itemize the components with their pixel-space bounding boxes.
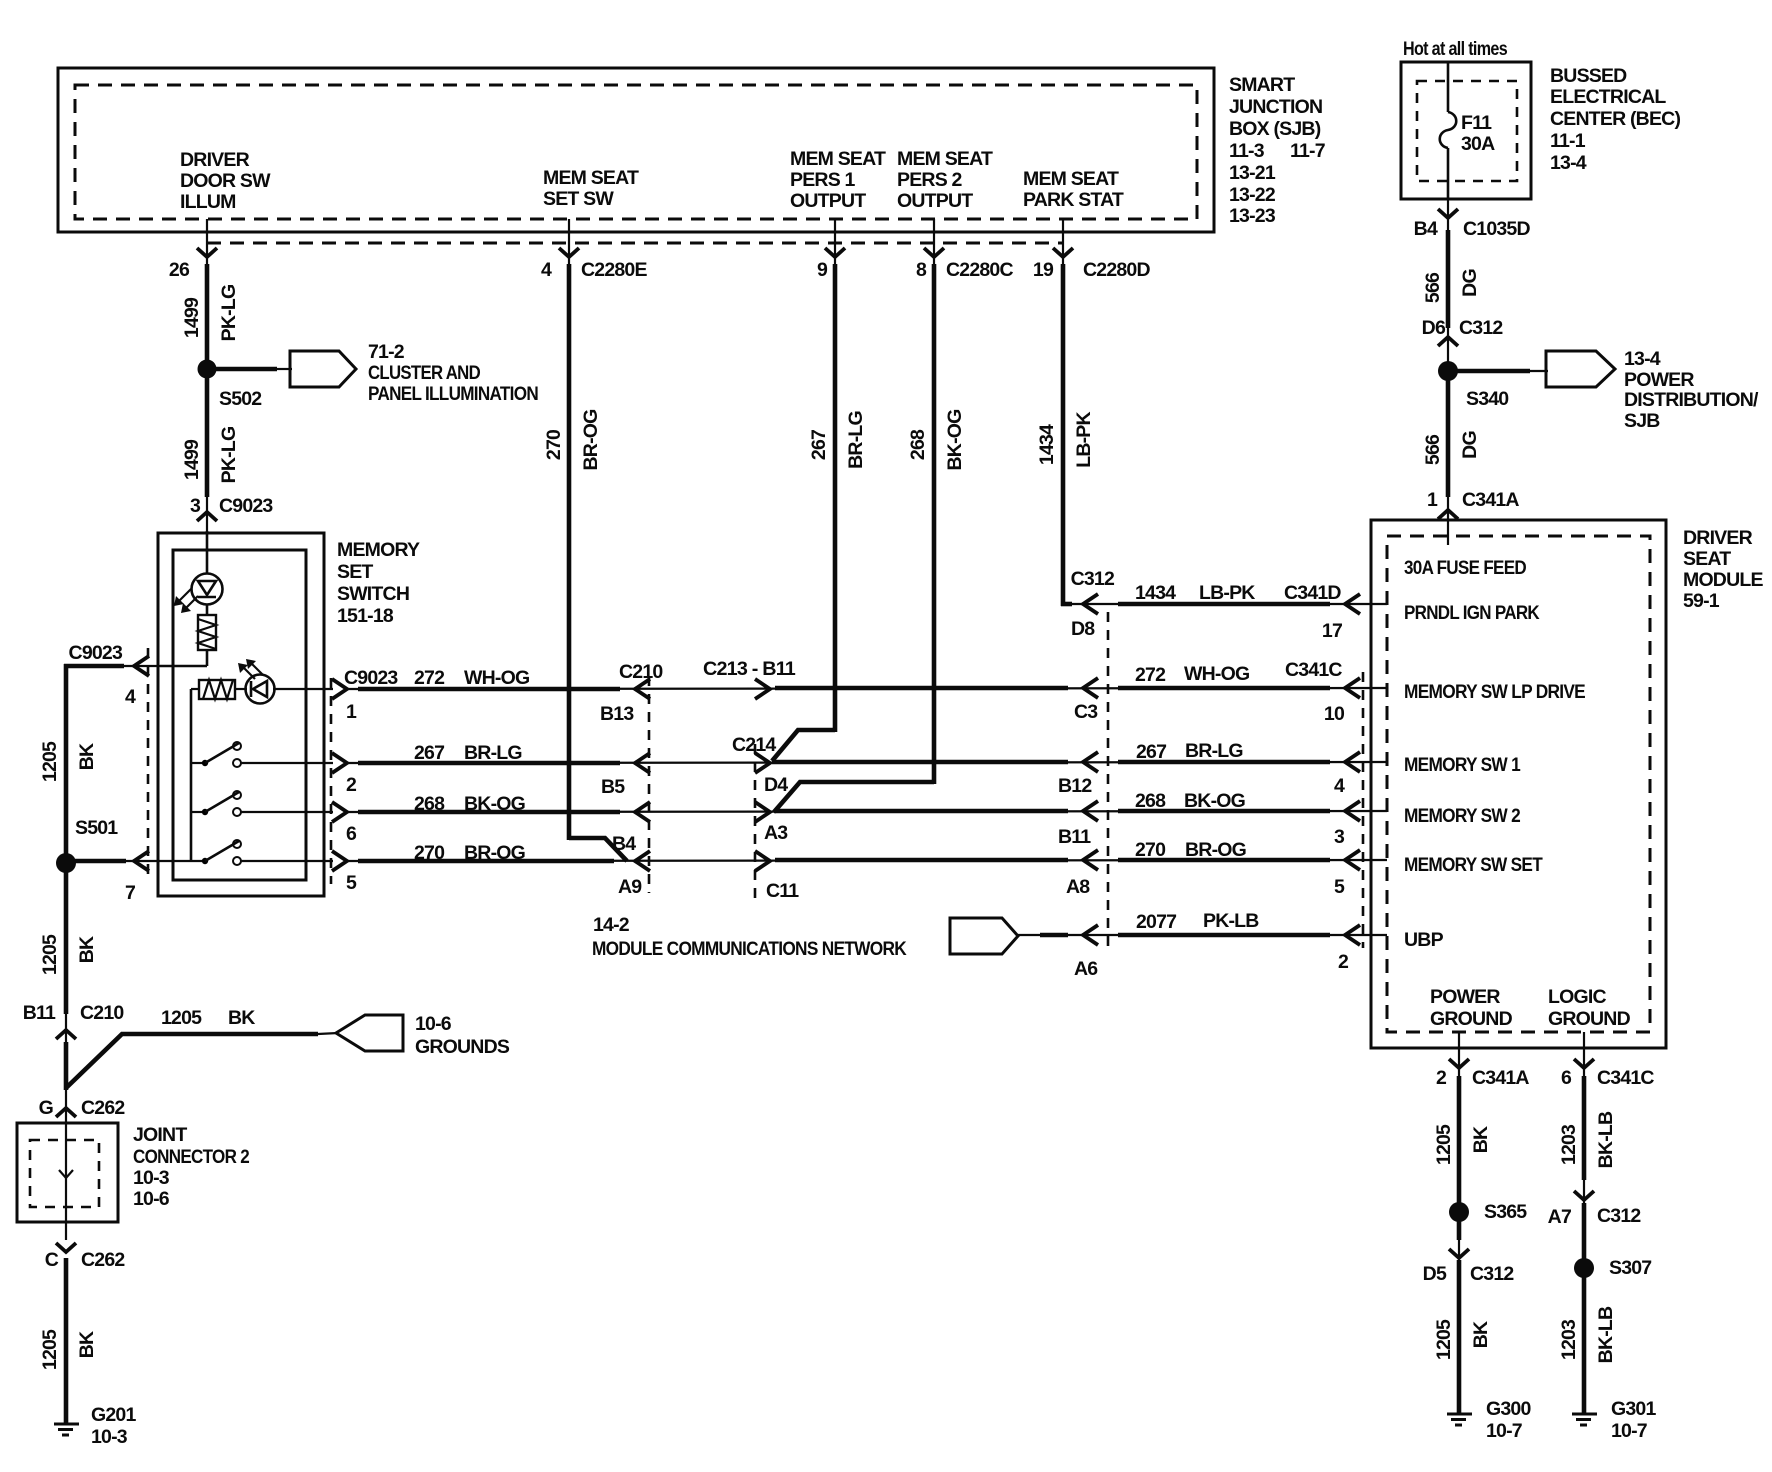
splice S307: [1574, 1257, 1651, 1279]
ground G300: [1447, 1398, 1531, 1442]
svg-text:SET SW: SET SW: [543, 188, 614, 210]
svg-text:1205: 1205: [39, 934, 61, 975]
off-page arrow 13-4 power distribution SJB: [1546, 348, 1759, 432]
svg-text:3: 3: [190, 495, 201, 517]
wire branch to power distribution: [1457, 369, 1548, 374]
C9023 left connector dashed line: [147, 648, 150, 880]
svg-text:S307: S307: [1609, 1257, 1651, 1279]
svg-text:13-23: 13-23: [1229, 205, 1276, 227]
LED 1 illumination: [174, 531, 223, 613]
svg-text:268: 268: [907, 429, 929, 460]
svg-text:1: 1: [1427, 489, 1438, 511]
svg-text:MEMORY SW LP DRIVE: MEMORY SW LP DRIVE: [1404, 681, 1586, 703]
svg-text:Hot at all times: Hot at all times: [1403, 38, 1508, 60]
C9023 right connector dashed line: [330, 678, 333, 884]
svg-text:4: 4: [125, 686, 136, 708]
svg-text:C341A: C341A: [1462, 489, 1519, 511]
wire row 1434 LB-PK (prndl ign park): [1063, 568, 1387, 604]
svg-text:2: 2: [1436, 1067, 1447, 1089]
switch SW2: [191, 791, 333, 816]
svg-text:UBP: UBP: [1404, 929, 1444, 951]
svg-text:BR-LG: BR-LG: [1185, 740, 1243, 762]
svg-text:272: 272: [1135, 664, 1166, 686]
svg-text:2: 2: [346, 774, 357, 796]
svg-text:POWER: POWER: [1624, 369, 1694, 391]
svg-text:1205: 1205: [1433, 1124, 1455, 1165]
memory set switch inner box: [173, 550, 306, 880]
svg-text:268: 268: [1135, 790, 1166, 812]
wire row 272 WH-OG (memory sw lp drive): [344, 659, 1387, 689]
svg-text:A6: A6: [1074, 958, 1098, 980]
svg-text:G201: G201: [91, 1404, 136, 1426]
SJB title label: [1229, 74, 1325, 227]
svg-text:30A: 30A: [1461, 133, 1495, 155]
svg-text:PK-LB: PK-LB: [1203, 910, 1259, 932]
svg-text:1: 1: [346, 701, 357, 723]
svg-text:5: 5: [346, 872, 357, 894]
svg-text:59-1: 59-1: [1683, 590, 1720, 612]
svg-text:G301: G301: [1611, 1398, 1656, 1420]
svg-text:D4: D4: [764, 774, 788, 796]
svg-text:DISTRIBUTION/: DISTRIBUTION/: [1624, 389, 1759, 411]
svg-text:30A FUSE FEED: 30A FUSE FEED: [1404, 557, 1527, 579]
svg-text:SJB: SJB: [1624, 410, 1660, 432]
svg-text:LB-PK: LB-PK: [1073, 411, 1095, 467]
driver seat module outer box: [1371, 520, 1666, 1048]
svg-text:SEAT: SEAT: [1683, 548, 1731, 570]
svg-text:BK: BK: [228, 1007, 255, 1029]
svg-text:5: 5: [1334, 876, 1345, 898]
svg-text:PANEL ILLUMINATION: PANEL ILLUMINATION: [368, 383, 538, 405]
svg-text:BUSSED: BUSSED: [1550, 65, 1627, 87]
svg-text:BR-OG: BR-OG: [1185, 839, 1246, 861]
svg-text:C210: C210: [80, 1002, 124, 1024]
wire S501 to memory switch pin 7: [75, 851, 206, 904]
svg-text:G: G: [39, 1097, 53, 1119]
svg-text:B11: B11: [23, 1002, 56, 1024]
smart junction box SJB inner dashed box: [75, 85, 1197, 219]
svg-text:BK: BK: [1470, 1126, 1492, 1153]
svg-text:B11: B11: [1058, 826, 1091, 848]
svg-text:D5: D5: [1423, 1263, 1447, 1285]
svg-text:F11: F11: [1461, 112, 1492, 134]
svg-text:BK: BK: [76, 936, 98, 963]
connector C213/C214 dashed line: [754, 744, 757, 898]
svg-text:566: 566: [1422, 434, 1444, 465]
wire 267 BR-LG from SJB mem seat pers 1 output: [772, 219, 867, 761]
svg-text:BK-LB: BK-LB: [1595, 1111, 1617, 1168]
svg-text:GROUND: GROUND: [1430, 1008, 1513, 1030]
wire 1434 LB-PK from SJB mem seat park stat: [1033, 219, 1151, 606]
svg-text:BR-OG: BR-OG: [580, 410, 602, 471]
svg-text:WH-OG: WH-OG: [1184, 663, 1249, 685]
off-page arrow 10-6 grounds: [336, 1013, 510, 1058]
svg-text:C341C: C341C: [1285, 659, 1342, 681]
svg-text:151-18: 151-18: [337, 605, 394, 627]
svg-text:C312: C312: [1071, 568, 1115, 590]
svg-text:268: 268: [414, 793, 445, 815]
svg-text:C9023: C9023: [344, 667, 398, 689]
svg-text:CLUSTER AND: CLUSTER AND: [368, 362, 481, 384]
wire 1499 PK-LG lower segment to C9023: [181, 378, 273, 533]
C341 module edge arrows and pin numbers: [1322, 594, 1360, 973]
svg-text:9: 9: [817, 259, 828, 281]
LED 2 memory indicator: [235, 659, 333, 704]
smart junction box SJB outer box: [58, 68, 1214, 232]
svg-text:C262: C262: [81, 1249, 125, 1271]
svg-text:WH-OG: WH-OG: [464, 667, 529, 689]
svg-text:270: 270: [414, 842, 445, 864]
svg-text:PK-LG: PK-LG: [218, 285, 240, 342]
svg-text:10-6: 10-6: [133, 1188, 170, 1210]
svg-text:1434: 1434: [1036, 424, 1058, 465]
svg-text:1205: 1205: [39, 741, 61, 782]
svg-text:S340: S340: [1466, 388, 1509, 410]
svg-text:S365: S365: [1484, 1201, 1527, 1223]
wire 1205 BK to grounds off-page: [66, 1007, 338, 1090]
wire through joint connector: [45, 1120, 126, 1271]
driver seat module pin labels: [1404, 557, 1631, 1030]
wire row 270 BR-OG (memory sw set): [347, 839, 1387, 864]
svg-text:1434: 1434: [1135, 582, 1176, 604]
svg-text:MEMORY SW 1: MEMORY SW 1: [1404, 754, 1521, 776]
svg-text:MODULE: MODULE: [1683, 569, 1763, 591]
wire 1499 PK-LG upper segment from SJB pin 26: [169, 219, 240, 360]
svg-text:B4: B4: [612, 833, 636, 855]
svg-text:10-7: 10-7: [1611, 1420, 1647, 1442]
svg-text:JUNCTION: JUNCTION: [1229, 96, 1322, 118]
svg-text:D6: D6: [1422, 317, 1446, 339]
svg-text:SET: SET: [337, 561, 373, 583]
svg-text:14-2: 14-2: [593, 914, 630, 936]
svg-text:G300: G300: [1486, 1398, 1531, 1420]
svg-text:C262: C262: [81, 1097, 125, 1119]
wire 1205 BK S501 down to C210: [23, 872, 125, 1044]
svg-text:267: 267: [1136, 741, 1166, 763]
svg-text:MEM SEAT: MEM SEAT: [1023, 168, 1119, 190]
wire 566 DG fuse to C312: [1414, 199, 1531, 362]
svg-text:SWITCH: SWITCH: [337, 583, 409, 605]
svg-text:C210: C210: [619, 661, 663, 683]
svg-text:PERS 2: PERS 2: [897, 169, 963, 191]
svg-text:SMART: SMART: [1229, 74, 1295, 96]
svg-text:11-1: 11-1: [1550, 130, 1586, 152]
C213 C214 arrows and pins: [703, 658, 799, 902]
svg-text:C341D: C341D: [1284, 582, 1341, 604]
switch SW3: [202, 840, 333, 865]
svg-text:C312: C312: [1597, 1205, 1641, 1227]
wire 1203 BK-LB logic ground: [1548, 1032, 1655, 1260]
C312 arrows and pins: [1058, 594, 1098, 980]
svg-text:MEM SEAT: MEM SEAT: [543, 167, 639, 189]
svg-text:MEM SEAT: MEM SEAT: [790, 148, 886, 170]
wire row 267 BR-LG (memory sw 1): [347, 740, 1387, 764]
svg-text:LOGIC: LOGIC: [1548, 986, 1606, 1008]
ground G201: [54, 1404, 136, 1448]
svg-text:C2280C: C2280C: [946, 259, 1013, 281]
wire 1205 BK power ground: [1433, 1032, 1529, 1204]
splice S501: [56, 817, 118, 873]
svg-text:BK-LB: BK-LB: [1595, 1306, 1617, 1363]
wire from R1 to C9023 pin 4: [64, 642, 207, 708]
svg-text:C213 - B11: C213 - B11: [703, 658, 796, 680]
svg-text:MEMORY SW SET: MEMORY SW SET: [1404, 854, 1543, 876]
memory set switch title: [337, 539, 420, 627]
svg-text:566: 566: [1422, 272, 1444, 303]
memory set switch outer box: [158, 533, 324, 896]
svg-text:BK-OG: BK-OG: [944, 410, 966, 471]
wire to joint connector C262: [39, 1090, 126, 1120]
svg-text:DG: DG: [1459, 269, 1481, 297]
svg-text:1203: 1203: [1558, 1124, 1580, 1165]
svg-text:13-4: 13-4: [1624, 348, 1661, 370]
svg-text:10: 10: [1324, 703, 1345, 725]
svg-text:11-3: 11-3: [1229, 140, 1265, 162]
svg-text:C2280E: C2280E: [581, 259, 647, 281]
svg-text:C214: C214: [732, 734, 776, 756]
svg-text:1499: 1499: [181, 297, 203, 338]
BEC title: [1550, 65, 1680, 174]
internal common bus: [190, 689, 193, 861]
wire 1205 BK to G201: [39, 1258, 98, 1424]
svg-text:C9023: C9023: [219, 495, 273, 517]
svg-text:JOINT: JOINT: [133, 1124, 187, 1146]
svg-text:DG: DG: [1459, 431, 1481, 459]
svg-text:GROUND: GROUND: [1548, 1008, 1631, 1030]
svg-text:B13: B13: [600, 703, 634, 725]
svg-text:PK-LG: PK-LG: [218, 427, 240, 484]
svg-text:BR-LG: BR-LG: [464, 742, 522, 764]
svg-text:4: 4: [1334, 775, 1345, 797]
svg-text:MEMORY SW 2: MEMORY SW 2: [1404, 805, 1521, 827]
joint connector 2 inner dashed box: [30, 1140, 99, 1207]
bussed electrical center outer box: [1401, 62, 1531, 199]
svg-text:BK: BK: [76, 1331, 98, 1358]
C210 arrows and pins: [600, 661, 663, 898]
svg-text:BOX (SJB): BOX (SJB): [1229, 118, 1321, 140]
wire 1205 BK from C9023 down to S501: [39, 664, 98, 855]
svg-text:A7: A7: [1548, 1206, 1571, 1228]
svg-text:B5: B5: [601, 776, 625, 798]
wire 566 DG S340 to driver seat module: [1422, 380, 1519, 545]
svg-text:OUTPUT: OUTPUT: [897, 190, 973, 212]
svg-text:BK: BK: [1470, 1321, 1492, 1348]
svg-text:MEMORY: MEMORY: [337, 539, 420, 561]
svg-text:17: 17: [1322, 620, 1342, 642]
svg-text:C312: C312: [1470, 1263, 1514, 1285]
svg-text:A8: A8: [1066, 876, 1090, 898]
svg-text:DOOR SW: DOOR SW: [180, 170, 271, 192]
svg-text:13-21: 13-21: [1229, 162, 1276, 184]
svg-text:CENTER (BEC): CENTER (BEC): [1550, 108, 1680, 130]
ground G301: [1572, 1398, 1656, 1442]
svg-text:BK-OG: BK-OG: [1184, 790, 1245, 812]
resistor R1 (illumination): [198, 604, 216, 666]
svg-text:8: 8: [916, 259, 927, 281]
svg-text:10-3: 10-3: [91, 1426, 128, 1448]
svg-text:71-2: 71-2: [368, 341, 405, 363]
svg-text:10-6: 10-6: [415, 1013, 452, 1035]
wire 1205 BK to G300: [1423, 1221, 1515, 1414]
svg-text:3: 3: [1334, 826, 1345, 848]
svg-text:C312: C312: [1459, 317, 1503, 339]
svg-text:C: C: [45, 1249, 59, 1271]
driver seat module inner dashed box: [1387, 536, 1650, 1032]
svg-text:C11: C11: [766, 880, 799, 902]
svg-text:BR-LG: BR-LG: [845, 411, 867, 469]
svg-text:1205: 1205: [39, 1329, 61, 1370]
svg-text:C3: C3: [1074, 701, 1098, 723]
off-page arrow 71-2 cluster and panel illumination: [290, 341, 538, 405]
driver seat module title: [1683, 527, 1763, 612]
svg-text:B12: B12: [1058, 775, 1092, 797]
svg-text:BK: BK: [76, 743, 98, 770]
svg-text:13-22: 13-22: [1229, 184, 1276, 206]
connector C341 dashed line at module: [1362, 672, 1365, 948]
wire row 268 BK-OG (memory sw 2): [347, 790, 1387, 815]
SJB internal labels: [180, 148, 1124, 213]
svg-text:B4: B4: [1414, 218, 1438, 240]
wire 268 BK-OG from SJB mem seat pers 2 output: [774, 219, 1013, 812]
svg-text:PERS 1: PERS 1: [790, 169, 856, 191]
svg-text:GROUNDS: GROUNDS: [415, 1036, 510, 1058]
svg-text:C2280D: C2280D: [1083, 259, 1150, 281]
svg-text:270: 270: [543, 429, 565, 460]
wire branch to cluster illumination: [216, 367, 292, 372]
SJB bottom connector dashed line: [207, 242, 1063, 245]
switch SW1: [191, 742, 333, 767]
joint connector 2 outer box: [17, 1123, 118, 1222]
svg-text:C341A: C341A: [1472, 1067, 1529, 1089]
bussed electrical center inner dashed box: [1417, 81, 1517, 181]
svg-text:ELECTRICAL: ELECTRICAL: [1550, 86, 1666, 108]
svg-text:6: 6: [346, 823, 357, 845]
svg-text:13-4: 13-4: [1550, 152, 1587, 174]
joint connector 2 title: [133, 1124, 250, 1210]
svg-text:BR-OG: BR-OG: [464, 842, 525, 864]
splice S502: [198, 360, 263, 411]
svg-text:10-7: 10-7: [1486, 1420, 1522, 1442]
svg-text:2: 2: [1338, 951, 1349, 973]
svg-text:CONNECTOR 2: CONNECTOR 2: [133, 1146, 250, 1168]
svg-text:2077: 2077: [1136, 911, 1176, 933]
off-page arrow UBP module communications network: [592, 914, 1018, 960]
wire 1203 BK-LB to G301: [1558, 1277, 1617, 1414]
svg-text:POWER: POWER: [1430, 986, 1500, 1008]
svg-text:6: 6: [1561, 1067, 1572, 1089]
svg-text:DRIVER: DRIVER: [180, 149, 250, 171]
fuse F11 30A: [1440, 63, 1495, 199]
svg-text:7: 7: [125, 882, 135, 904]
connector C210 dashed line: [648, 676, 651, 893]
svg-text:1203: 1203: [1558, 1319, 1580, 1360]
svg-text:C1035D: C1035D: [1463, 218, 1530, 240]
svg-text:267: 267: [414, 742, 444, 764]
svg-text:26: 26: [169, 259, 190, 281]
svg-text:LB-PK: LB-PK: [1199, 582, 1255, 604]
svg-text:OUTPUT: OUTPUT: [790, 190, 866, 212]
svg-text:S501: S501: [75, 817, 118, 839]
splice S365: [1449, 1201, 1527, 1223]
wire 270 BR-OG from SJB mem seat set sw: [541, 219, 648, 861]
svg-text:MODULE COMMUNICATIONS NETWORK: MODULE COMMUNICATIONS NETWORK: [592, 938, 907, 960]
svg-text:PRNDL IGN PARK: PRNDL IGN PARK: [1404, 602, 1540, 624]
svg-text:19: 19: [1033, 259, 1054, 281]
svg-text:1205: 1205: [1433, 1319, 1455, 1360]
svg-text:267: 267: [808, 430, 830, 460]
svg-text:MEM SEAT: MEM SEAT: [897, 148, 993, 170]
svg-text:A3: A3: [764, 822, 788, 844]
splice S340: [1438, 361, 1509, 410]
svg-text:4: 4: [541, 259, 552, 281]
svg-text:BK-OG: BK-OG: [464, 793, 525, 815]
connector C312 dashed line: [1107, 612, 1110, 952]
svg-text:C9023: C9023: [69, 642, 123, 664]
svg-text:272: 272: [414, 667, 445, 689]
svg-text:C341C: C341C: [1597, 1067, 1654, 1089]
svg-text:PARK STAT: PARK STAT: [1023, 189, 1124, 211]
svg-text:A9: A9: [618, 876, 642, 898]
wire row 2077 PK-LB (UBP): [1018, 910, 1387, 935]
resistor R2 (indicator): [191, 680, 235, 699]
svg-text:1499: 1499: [181, 439, 203, 480]
C9023 pin arrows: [332, 679, 357, 894]
svg-text:270: 270: [1135, 839, 1166, 861]
svg-text:ILLUM: ILLUM: [180, 191, 236, 213]
svg-text:1205: 1205: [161, 1007, 202, 1029]
svg-text:DRIVER: DRIVER: [1683, 527, 1753, 549]
svg-text:S502: S502: [219, 388, 262, 410]
svg-text:D8: D8: [1071, 618, 1095, 640]
svg-text:11-7: 11-7: [1290, 140, 1325, 162]
svg-text:10-3: 10-3: [133, 1167, 170, 1189]
